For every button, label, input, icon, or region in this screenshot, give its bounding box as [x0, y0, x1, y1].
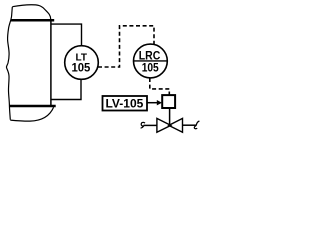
process pipe left segment: [144, 124, 158, 126]
bottom nozzle impulse line to LT: [51, 79, 81, 99]
LV-105 label box: [103, 96, 148, 111]
pipe left break squiggle: [141, 122, 145, 128]
dashed signal line LT to LRC: [98, 26, 154, 67]
valve actuator (diaphragm box): [162, 95, 175, 108]
svg-text:105: 105: [71, 61, 90, 74]
instrument LT-105 circle: [65, 46, 99, 80]
vessel top tangent line (thick): [11, 19, 55, 22]
control valve body right triangle: [169, 118, 183, 132]
vessel left break line (wavy): [6, 7, 12, 120]
pipe right break squiggle: [194, 121, 199, 129]
controller LRC-105 circle: [134, 44, 168, 78]
top nozzle impulse line to LT: [51, 24, 82, 46]
arrow line from LV-105 box to actuator: [147, 102, 158, 104]
control valve body left triangle: [157, 118, 171, 132]
process pipe right segment: [182, 124, 196, 126]
LRC panel-mount line: [134, 60, 168, 62]
vessel right wall: [50, 20, 52, 106]
dashed signal line LRC to valve actuator: [150, 78, 170, 95]
svg-text:LV-105: LV-105: [105, 96, 143, 110]
svg-text:LRC: LRC: [139, 50, 161, 63]
vessel bottom head outline: [10, 107, 53, 121]
vessel bottom tangent line (thick): [10, 105, 56, 108]
svg-text:105: 105: [142, 62, 159, 75]
vessel top head outline: [12, 5, 50, 19]
valve stem: [169, 108, 171, 125]
arrowhead: [157, 100, 162, 105]
